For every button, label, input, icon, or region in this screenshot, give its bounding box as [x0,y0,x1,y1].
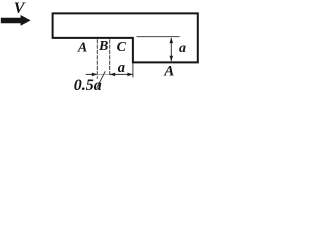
horizontal extension line at flange bottom level [137,36,180,38]
svg-text:a: a [118,60,125,76]
leader line for 0.5a [97,71,106,88]
cross-section outline [53,13,198,62]
svg-text:C: C [117,40,127,55]
svg-text:0.5a: 0.5a [74,77,102,94]
extension line left of B [96,39,98,79]
svg-text:A: A [163,64,174,80]
a dimension line (right vertical) with arrows [170,38,174,62]
0.5a dimension line between extension lines [97,73,109,75]
svg-text:A: A [77,40,87,55]
svg-text:V: V [14,0,26,17]
0.5a dimension left arrow [86,73,98,77]
svg-text:a: a [179,41,186,56]
a dimension line (bottom) with arrows [110,73,133,77]
svg-text:B: B [98,39,108,54]
extension of step edge [132,63,134,77]
shear force arrow V [1,15,31,26]
extension line right of B [109,39,111,76]
